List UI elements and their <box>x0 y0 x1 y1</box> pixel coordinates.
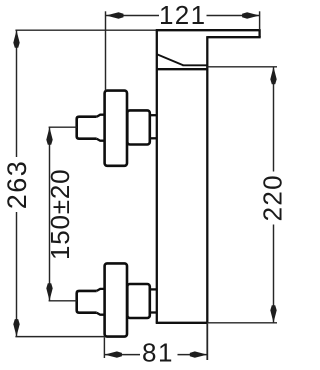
top adapter <box>127 110 150 144</box>
dim 220 arrow down <box>270 305 276 323</box>
faucet top plate (shelf) top edge <box>156 29 260 31</box>
bottom adapter neck lower <box>150 311 157 313</box>
dim 220 line lower segment <box>273 225 275 323</box>
svg-text:263: 263 <box>2 160 32 210</box>
top knob flare upper <box>97 115 105 117</box>
top knob flare lower <box>97 139 105 141</box>
dim 263 line upper segment <box>16 30 18 157</box>
svg-text:220: 220 <box>258 174 288 221</box>
dim 121 line left segment <box>106 15 159 17</box>
dim 81 arrow left <box>104 351 122 357</box>
dim 121 line right segment <box>207 15 260 17</box>
dim 150±20 arrow down <box>46 283 52 301</box>
shelf bottom edge <box>207 36 260 38</box>
dim 150±20 extension line bottom <box>49 300 77 302</box>
top adapter neck upper <box>150 114 157 116</box>
body bottom edge <box>156 322 208 324</box>
svg-text:150±20: 150±20 <box>45 169 75 260</box>
faucet body left edge <box>156 30 158 323</box>
spout underside line <box>183 64 208 66</box>
dim 81 extension line right <box>206 324 208 361</box>
svg-text:81: 81 <box>142 337 174 367</box>
dim 81 arrow right <box>190 351 208 357</box>
dim 81 line right segment <box>178 354 208 356</box>
dim 81 extension line left <box>103 338 105 359</box>
bottom adapter neck upper <box>150 288 157 290</box>
dim 263 extension line top (to fixture top) <box>15 29 156 31</box>
top adapter neck lower <box>150 137 157 139</box>
dim 150±20 extension line top <box>49 126 77 128</box>
bottom adapter <box>127 284 150 318</box>
dim 121 arrow left <box>106 12 124 18</box>
dim 263 arrow up <box>13 30 19 48</box>
dim 220 extension line bottom (body bottom extended) <box>207 322 277 324</box>
spout housing bottom line <box>157 68 208 70</box>
dim 150±20 arrow up <box>46 127 52 145</box>
top knob <box>77 117 97 139</box>
dim 81 line left segment <box>104 354 140 356</box>
dim 263 extension line bottom <box>15 336 105 338</box>
bottom knob <box>77 291 97 313</box>
dim 263 line lower segment <box>16 212 18 337</box>
spout lip curve <box>157 54 183 65</box>
svg-text:121: 121 <box>159 0 206 30</box>
dim 121 extension line right <box>259 11 261 30</box>
top flange (escutcheon) <box>105 91 127 166</box>
bottom knob flare upper <box>97 289 105 291</box>
dim 121 arrow right <box>242 12 260 18</box>
dim 150±20 line <box>49 127 51 301</box>
bottom flange (escutcheon) <box>105 263 127 336</box>
dim 220 line upper segment <box>273 67 275 172</box>
dim 220 extension line top <box>207 66 277 68</box>
body right edge <box>206 36 208 323</box>
dim 263 arrow down <box>13 319 19 337</box>
bottom knob flare lower <box>97 313 105 315</box>
dim 121 extension line left <box>105 11 107 90</box>
shelf right edge <box>258 29 260 37</box>
dim 220 arrow up <box>270 67 276 85</box>
